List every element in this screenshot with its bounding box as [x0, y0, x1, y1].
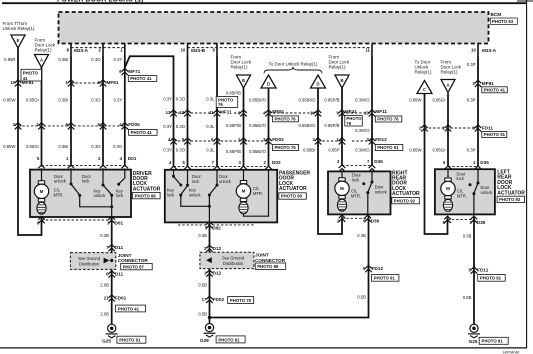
svg-text:0.85Br/O: 0.85Br/O [249, 98, 267, 103]
svg-text:12: 12 [180, 110, 185, 115]
svg-text:MF81: MF81 [482, 81, 494, 86]
svg-text:PHOTO 92: PHOTO 92 [499, 197, 521, 202]
svg-text:PHOTO 41: PHOTO 41 [130, 76, 152, 81]
svg-text:Unlock Relay(1): Unlock Relay(1) [3, 26, 36, 31]
svg-text:ACTUATOR: ACTUATOR [497, 190, 525, 196]
svg-text:MF41: MF41 [345, 109, 357, 114]
svg-text:0.85P/B: 0.85P/B [226, 149, 241, 154]
svg-text:unlock: unlock [481, 190, 494, 195]
svg-text:0.85W: 0.85W [3, 144, 15, 149]
svg-text:PHOTO: PHOTO [23, 71, 39, 76]
svg-text:Distribution: Distribution [223, 261, 244, 266]
svg-text:0.3O: 0.3O [176, 124, 186, 129]
svg-text:17: 17 [202, 297, 207, 302]
svg-text:D11: D11 [115, 245, 124, 250]
svg-text:FD01: FD01 [115, 296, 127, 301]
svg-text:0.3Y: 0.3Y [163, 124, 172, 129]
svg-text:E: E [17, 38, 20, 43]
svg-text:MF51: MF51 [272, 109, 284, 114]
svg-text:0.5B: 0.5B [198, 283, 207, 288]
svg-text:Distribution: Distribution [79, 261, 100, 266]
svg-text:lock: lock [116, 193, 124, 198]
svg-text:FD05: FD05 [128, 122, 140, 127]
svg-text:0.3P: 0.3P [467, 148, 476, 153]
svg-text:11: 11 [209, 110, 214, 115]
svg-text:0.3O: 0.3O [176, 148, 186, 153]
svg-text:0.85Gr: 0.85Gr [26, 98, 40, 103]
svg-text:M: M [340, 186, 344, 191]
svg-text:D02: D02 [272, 160, 281, 165]
svg-text:G25: G25 [469, 339, 478, 344]
svg-text:0.85Br: 0.85Br [303, 148, 316, 153]
svg-text:0.85Gr: 0.85Gr [433, 148, 447, 153]
svg-text:10: 10 [10, 80, 15, 85]
svg-text:lock: lock [457, 176, 465, 181]
svg-text:To Door Unlock Relay(1): To Door Unlock Relay(1) [268, 62, 318, 67]
svg-text:FD02: FD02 [213, 297, 225, 302]
svg-text:0.3B: 0.3B [198, 233, 207, 238]
svg-text:FD02: FD02 [272, 137, 284, 142]
svg-text:PHOTO 91: PHOTO 91 [377, 145, 399, 150]
svg-text:unlock: unlock [375, 189, 388, 194]
svg-text:M33-A: M33-A [482, 48, 497, 53]
svg-text:PHOTO 91: PHOTO 91 [482, 339, 504, 344]
svg-text:MF11: MF11 [375, 109, 387, 114]
svg-text:0.85W: 0.85W [409, 148, 421, 153]
svg-text:A: A [40, 57, 43, 62]
svg-text:B: B [242, 78, 245, 83]
svg-text:0.3P: 0.3P [467, 97, 476, 102]
svg-text:Relay(1): Relay(1) [441, 70, 459, 75]
svg-text:BCM: BCM [491, 12, 502, 17]
svg-text:PHOTO 91: PHOTO 91 [374, 276, 396, 281]
svg-text:PHOTO 92: PHOTO 92 [394, 198, 416, 203]
svg-text:M: M [446, 186, 450, 191]
svg-text:0.3Y: 0.3Y [163, 96, 172, 101]
svg-text:MF61: MF61 [107, 80, 119, 85]
svg-text:D: D [316, 81, 319, 86]
svg-text:PHOTO 91: PHOTO 91 [480, 276, 502, 281]
svg-text:0.3G: 0.3G [113, 144, 122, 149]
svg-text:G25: G25 [102, 339, 111, 344]
svg-text:MTR.: MTR. [351, 193, 361, 198]
svg-text:PHOTO 91: PHOTO 91 [484, 132, 506, 137]
svg-text:76: 76 [218, 102, 223, 107]
svg-text:0.3W/O: 0.3W/O [355, 128, 370, 133]
svg-text:0.85R: 0.85R [4, 57, 15, 62]
svg-text:10: 10 [364, 111, 369, 116]
svg-text:0.85Br/O: 0.85Br/O [249, 149, 267, 154]
svg-text:13: 13 [166, 110, 171, 115]
svg-text:PHOTO 90: PHOTO 90 [281, 194, 303, 199]
svg-text:0.85Gr: 0.85Gr [26, 144, 40, 149]
svg-text:0.85Gr: 0.85Gr [433, 97, 447, 102]
svg-text:lock: lock [192, 179, 200, 184]
svg-text:D36: D36 [374, 159, 383, 164]
svg-text:MF71: MF71 [128, 69, 140, 74]
svg-text:2.0B: 2.0B [100, 311, 109, 316]
svg-text:unlock: unlock [219, 179, 232, 184]
svg-text:D35: D35 [480, 160, 489, 165]
svg-text:ACTUATOR: ACTUATOR [133, 186, 161, 192]
svg-text:0.85Br/O: 0.85Br/O [298, 123, 316, 128]
svg-text:D11: D11 [115, 272, 124, 277]
svg-text:MTR.: MTR. [457, 194, 467, 199]
svg-text:0.3O: 0.3O [91, 57, 101, 62]
svg-text:0.3W/O: 0.3W/O [355, 98, 370, 103]
svg-text:0.5B: 0.5B [198, 311, 207, 316]
svg-text:0.5B: 0.5B [463, 295, 472, 300]
svg-text:0.85P/B: 0.85P/B [226, 123, 241, 128]
svg-text:Relay(1): Relay(1) [329, 65, 347, 70]
svg-text:D02: D02 [212, 225, 221, 230]
svg-text:D01: D01 [115, 221, 124, 226]
svg-text:M: M [40, 189, 44, 194]
svg-text:CONNECTOR: CONNECTOR [255, 258, 286, 263]
svg-text:PHOTO 76: PHOTO 76 [275, 117, 297, 122]
svg-text:PHOTO 87: PHOTO 87 [123, 264, 145, 269]
svg-text:Relay(1): Relay(1) [231, 65, 249, 70]
svg-text:D12: D12 [213, 271, 222, 276]
svg-text:HJP04046: HJP04046 [503, 351, 519, 354]
svg-text:0.85P/B: 0.85P/B [324, 98, 339, 103]
svg-text:0.3Y: 0.3Y [163, 148, 172, 153]
svg-text:PHOTO 91: PHOTO 91 [119, 338, 141, 343]
svg-text:0.3Br: 0.3Br [58, 57, 69, 62]
svg-text:0.3O: 0.3O [176, 96, 186, 101]
svg-text:0.3B: 0.3B [463, 234, 472, 239]
svg-text:A: A [446, 82, 449, 87]
svg-text:41: 41 [23, 76, 28, 81]
svg-text:0.3Y: 0.3Y [114, 57, 123, 62]
svg-text:0.3Br: 0.3Br [58, 98, 69, 103]
svg-text:76: 76 [346, 121, 351, 126]
svg-text:lock: lock [352, 177, 360, 182]
svg-text:0.85Br/O: 0.85Br/O [249, 123, 267, 128]
svg-text:C: C [423, 87, 426, 92]
svg-text:G29: G29 [200, 338, 209, 343]
svg-text:B: B [340, 78, 343, 83]
svg-text:PHOTO 75: PHOTO 75 [275, 145, 297, 150]
svg-text:Relay(1): Relay(1) [415, 70, 433, 75]
svg-text:10: 10 [181, 48, 186, 53]
svg-text:0.85P/B: 0.85P/B [324, 123, 339, 128]
svg-text:PHOTO 75: PHOTO 75 [230, 298, 252, 303]
svg-text:Relay(1): Relay(1) [35, 48, 53, 53]
svg-text:0.3O: 0.3O [91, 98, 101, 103]
svg-text:0.3O: 0.3O [91, 144, 101, 149]
svg-text:FD11: FD11 [482, 126, 494, 131]
svg-text:FD12: FD12 [372, 266, 384, 271]
svg-text:unlock: unlock [94, 193, 107, 198]
svg-text:PHOTO 41: PHOTO 41 [131, 130, 153, 135]
svg-text:10: 10 [471, 48, 476, 53]
svg-text:D: D [267, 81, 270, 86]
svg-text:0.3Y: 0.3Y [114, 98, 123, 103]
svg-text:2.0B: 2.0B [100, 283, 109, 288]
svg-text:D12: D12 [213, 246, 222, 251]
svg-text:PHOTO 63: PHOTO 63 [492, 19, 514, 24]
svg-text:D01: D01 [128, 156, 137, 161]
svg-text:unlock: unlock [189, 192, 202, 197]
svg-text:PHOTO 41: PHOTO 41 [484, 88, 506, 93]
svg-text:FD11: FD11 [477, 268, 489, 273]
svg-text:FD12: FD12 [375, 137, 387, 142]
svg-text:PHOTO 91: PHOTO 91 [218, 337, 240, 342]
svg-text:0.3L: 0.3L [206, 124, 215, 129]
svg-text:lock: lock [167, 192, 175, 197]
svg-text:0.85P: 0.85P [328, 148, 339, 153]
svg-text:0.3P: 0.3P [467, 62, 476, 67]
svg-text:D35: D35 [477, 220, 486, 225]
svg-text:0.3L: 0.3L [206, 148, 215, 153]
svg-text:0.3B: 0.3B [100, 233, 109, 238]
svg-text:PHOTO 41: PHOTO 41 [118, 306, 140, 311]
svg-text:CONNECTOR: CONNECTOR [118, 258, 149, 263]
svg-text:0.85W: 0.85W [3, 98, 15, 103]
svg-text:MTR.: MTR. [253, 191, 263, 196]
svg-text:11: 11 [365, 48, 370, 53]
svg-text:0.3Br: 0.3Br [58, 144, 69, 149]
svg-text:PHOTO 89: PHOTO 89 [257, 264, 279, 269]
svg-text:M33-A: M33-A [74, 48, 89, 53]
svg-text:PHOTO 86: PHOTO 86 [135, 193, 157, 198]
svg-text:MF11: MF11 [220, 109, 232, 114]
svg-text:M: M [242, 189, 246, 194]
svg-text:0.85P/B: 0.85P/B [226, 91, 241, 96]
svg-text:0.3L: 0.3L [206, 96, 215, 101]
svg-text:0.85W: 0.85W [409, 97, 421, 102]
svg-text:0.3W/O: 0.3W/O [355, 148, 370, 153]
svg-text:M33-B: M33-B [191, 48, 206, 53]
svg-text:PHOTO 76: PHOTO 76 [377, 117, 399, 122]
svg-text:21: 21 [104, 296, 109, 301]
svg-text:See Ground: See Ground [222, 255, 245, 260]
svg-text:0.5B: 0.5B [357, 295, 366, 300]
svg-text:See Ground: See Ground [78, 256, 101, 261]
svg-text:unlock: unlock [54, 179, 67, 184]
svg-text:10: 10 [310, 111, 315, 116]
svg-text:D36: D36 [371, 219, 380, 224]
svg-text:MTR.: MTR. [54, 193, 64, 198]
svg-text:0.85Br/O: 0.85Br/O [298, 98, 316, 103]
svg-text:ACTUATOR: ACTUATOR [279, 186, 307, 192]
svg-text:0.3B: 0.3B [357, 233, 366, 238]
svg-text:ACTUATOR: ACTUATOR [392, 191, 420, 197]
svg-text:lock: lock [82, 179, 90, 184]
